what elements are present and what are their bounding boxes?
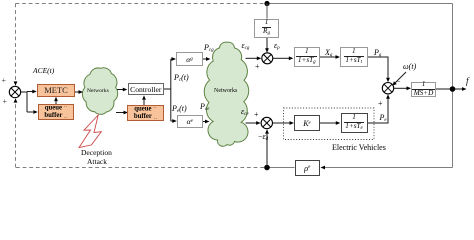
arrowhead queue2 to Controller: [142, 95, 146, 99]
arrowhead into rho-e box: [321, 166, 326, 170]
arrowhead alpha-g into cloud N2: [206, 57, 211, 61]
label minus epsilon-d: [258, 132, 268, 142]
arrowhead into METC: [32, 90, 37, 94]
arrowhead into queue buffer 1: [33, 110, 38, 114]
node A junction dot top: [264, 1, 269, 6]
wire omega disturbance diagonal: [395, 72, 406, 83]
label epsilon-ce: [241, 107, 249, 117]
arrowhead omega into sum S4: [393, 81, 397, 85]
label Networks N1: [87, 88, 109, 94]
arrowhead into Controller: [123, 88, 128, 92]
arrowhead Pe into sum S4: [386, 94, 390, 98]
networks cloud N2: [204, 42, 248, 146]
node B junction dot bottom: [264, 165, 270, 171]
wire left vertical dashed upper: [15, 4, 17, 82]
box alpha-g: [176, 52, 203, 66]
label minus sum S4: [396, 77, 401, 86]
arrowhead into alpha-g: [172, 57, 177, 61]
label epsilon-cg: [242, 41, 250, 51]
wire queue buffer 2 to Controller: [143, 100, 145, 105]
arrowhead into turbine: [336, 55, 341, 59]
wire cloud N2 to sum S2: [246, 57, 258, 59]
wire alpha-e to cloud N2: [203, 121, 206, 123]
wire EV output Pe to sum S4: [368, 99, 389, 124]
wire queue buffer 1 to METC: [55, 101, 57, 104]
label Electric Vehicles: [332, 143, 386, 152]
wire right vertical feedback: [452, 4, 454, 168]
arrowhead epsilon-d into sum S3: [265, 129, 269, 133]
arrowhead into alpha-e: [172, 119, 177, 123]
EV dotted subsystem frame: [284, 108, 375, 140]
wire sum S2 to governor box: [273, 57, 289, 59]
box droop 1/Rg: [254, 19, 279, 39]
label Pcg: [204, 43, 214, 53]
wire generator to output f: [436, 88, 462, 90]
arrowhead into generator: [407, 86, 412, 90]
box alpha-e: [177, 115, 203, 128]
wire governor to turbine box: [320, 56, 336, 58]
box generator 1/(MS+D): [411, 82, 436, 97]
box queue buffer 2: [127, 105, 164, 121]
arrowhead droop into sum S2: [265, 48, 269, 52]
wire bottom feedback right segment: [322, 167, 453, 169]
label Pe: [380, 113, 387, 123]
wire node B to sum S3: [266, 134, 268, 168]
label Attack: [87, 157, 107, 166]
box EV 1/(1+sTe): [341, 113, 368, 133]
label Pce: [200, 102, 209, 112]
label f output: [466, 76, 469, 86]
label Pc(t): [174, 73, 189, 83]
sum junction S3: [261, 117, 272, 128]
label plus sum S2: [255, 62, 260, 71]
arrowhead output f: [462, 87, 467, 91]
wire left vertical dashed lower: [15, 102, 17, 168]
wire Controller output with split to alpha-g and alpha-e: [164, 59, 173, 121]
box turbine 1/(1+sTt): [340, 47, 368, 67]
wire top feedback dashed: [16, 3, 268, 5]
sum junction S2: [262, 53, 273, 64]
label Pe(t): [172, 104, 187, 114]
label plus sum S3: [254, 110, 259, 119]
wire top feedback solid: [267, 3, 453, 5]
box governor 1/(1+sTg): [294, 47, 321, 67]
wire sum S3 to Ke box: [273, 122, 291, 124]
wire cloud N1 to Controller: [117, 89, 123, 91]
wire cloud N1 to queue buffer 2: [116, 112, 124, 114]
box Ke: [294, 115, 320, 131]
wire sum S4 to generator box: [394, 87, 407, 89]
arrowhead alpha-e into cloud N2: [205, 120, 210, 124]
arrowhead into sum S3: [256, 121, 261, 125]
box rho-e: [295, 160, 321, 176]
wire METC to cloud N1: [75, 91, 79, 93]
networks cloud N1: [82, 68, 117, 115]
label epsilon-p: [274, 41, 280, 51]
deception attack lightning bolt: [79, 115, 101, 148]
label Xg: [325, 48, 332, 58]
wire alpha-g to cloud N2: [203, 58, 206, 60]
label omega(t): [403, 62, 416, 71]
wire cloud N2 to sum S3: [246, 122, 257, 124]
arrowhead into governor: [289, 56, 294, 60]
wire Ke to Te box: [320, 122, 336, 124]
arrowhead into sum S1 from top: [14, 81, 18, 85]
arrowhead into sum S2: [257, 56, 262, 60]
box Controller: [128, 83, 165, 95]
sum junction S4: [382, 83, 393, 94]
wire turbine to sum S4: [368, 57, 389, 78]
arrowhead into sum S1 from bottom: [14, 98, 18, 102]
wire sum S1 output split: [21, 92, 33, 113]
arrowhead into cloud N1: [79, 90, 84, 94]
wire rho-e to node B: [267, 167, 295, 169]
arrowhead into Te box: [336, 121, 341, 125]
label plus bottom-left: [3, 97, 8, 106]
arrowhead Pg into sum S4: [386, 78, 390, 82]
wire node A to droop box: [266, 4, 268, 19]
arrowhead into queue buffer 2: [124, 111, 129, 115]
wire bottom feedback dashed: [16, 167, 265, 169]
arrowhead queue1 to METC: [54, 97, 58, 101]
box queue buffer 1: [38, 104, 74, 120]
label Networks N2: [214, 88, 237, 94]
label Pg: [374, 48, 381, 58]
sum junction S1: [9, 86, 20, 97]
label Deception: [81, 148, 112, 157]
label plus top-left: [2, 76, 7, 85]
arrowhead into Ke: [290, 121, 295, 125]
wire droop box to sum S2: [266, 38, 268, 49]
box METC: [37, 84, 75, 97]
label ACE(t): [33, 66, 54, 75]
label plus sum S4: [378, 99, 383, 108]
node C junction dot at f: [450, 86, 456, 92]
